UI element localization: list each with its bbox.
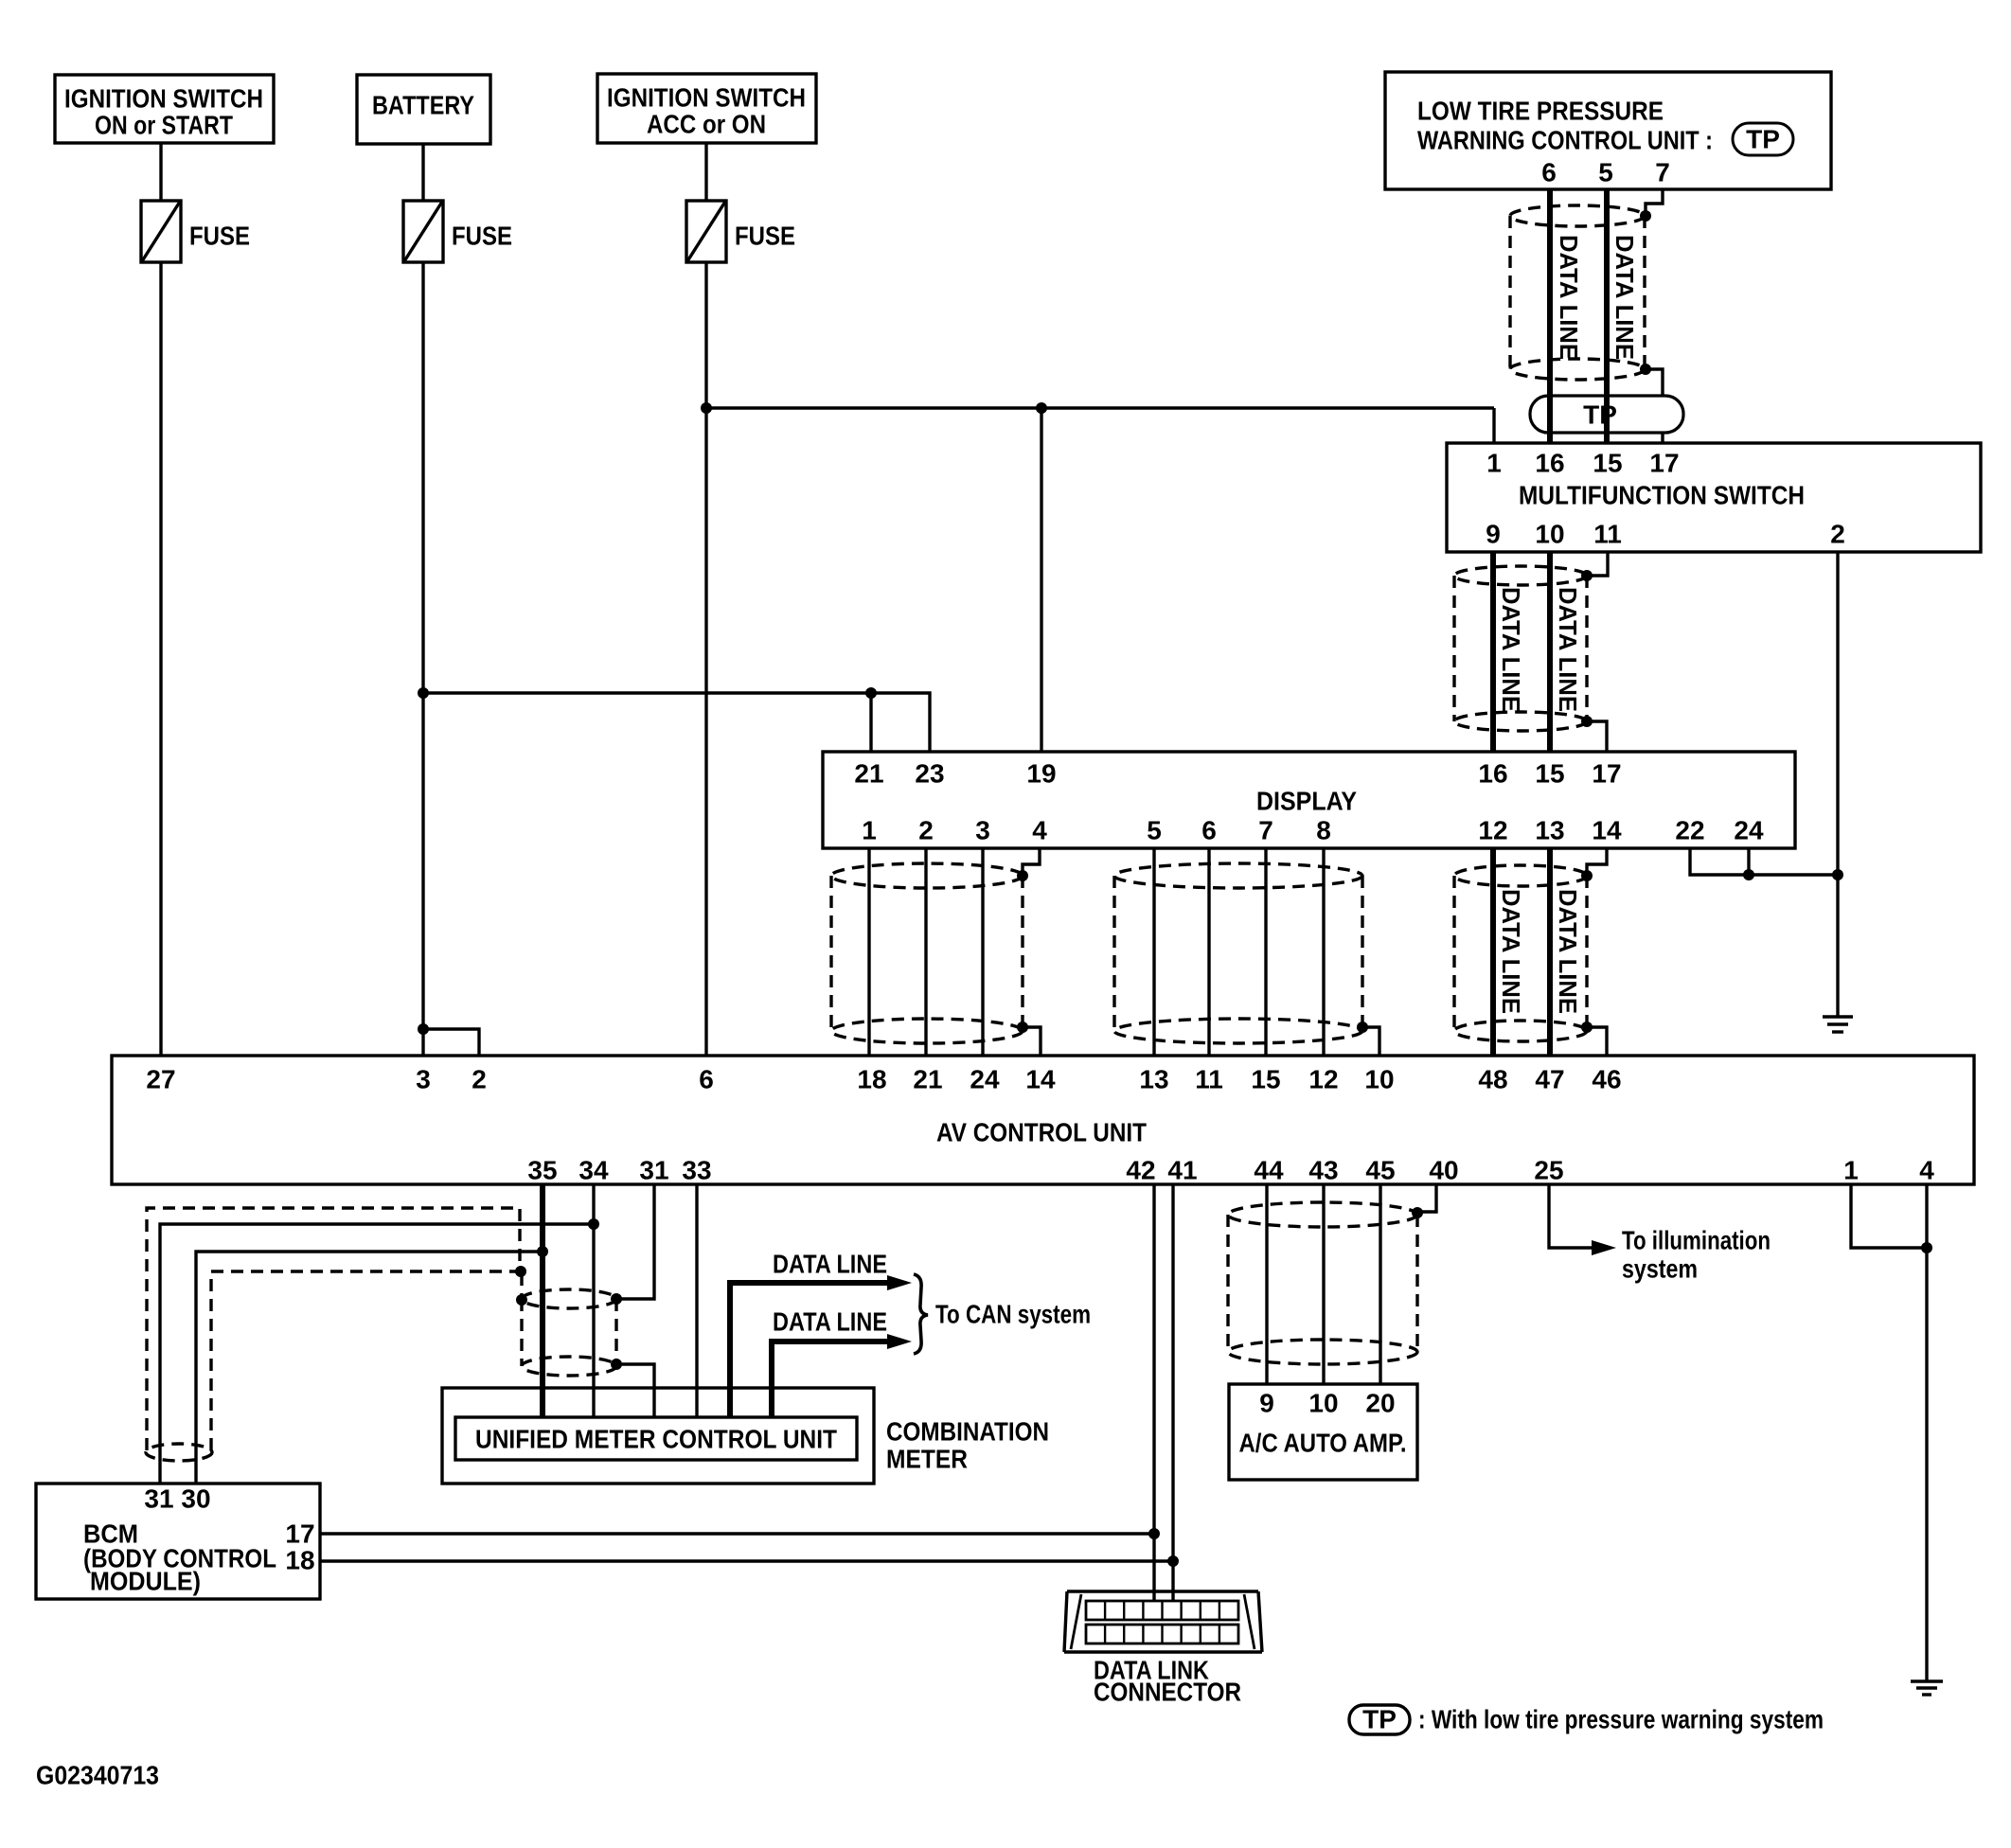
svg-text:16: 16	[1478, 759, 1507, 789]
brace to CAN system	[914, 1274, 928, 1354]
svg-text:33: 33	[682, 1156, 711, 1185]
wire: TP joint to MF pin 15 (thick)	[1604, 390, 1610, 443]
svg-text:45: 45	[1365, 1156, 1395, 1185]
svg-text:A/C AUTO AMP.: A/C AUTO AMP.	[1239, 1429, 1407, 1458]
svg-text:LOW TIRE PRESSURE: LOW TIRE PRESSURE	[1417, 97, 1664, 126]
connector box: AV CONTROL UNIT	[112, 1056, 1974, 1185]
svg-text:4: 4	[1032, 816, 1047, 845]
svg-text:DISPLAY: DISPLAY	[1256, 787, 1357, 816]
wire: DISPLAY 3 to AV 24	[981, 848, 984, 1056]
svg-text:21: 21	[854, 759, 883, 789]
wire: MF pin 2 to ground	[1836, 552, 1839, 1017]
svg-text:MODULE): MODULE)	[90, 1567, 201, 1596]
wire: drop to DISPLAY pin 19	[1040, 408, 1042, 752]
node: shield connection bottom	[1640, 364, 1651, 375]
node: shield at cylinder	[516, 1294, 527, 1306]
svg-text:TP: TP	[1362, 1705, 1397, 1734]
wire: BCM pin 17 to data link connector (wire 42)	[320, 1532, 1154, 1535]
svg-text:6: 6	[699, 1065, 714, 1094]
svg-text:7: 7	[1655, 158, 1670, 187]
shielded cable: DISPLAY pins 1-3 to AV 18/21/24	[831, 863, 1023, 1043]
svg-text:3: 3	[416, 1065, 431, 1094]
node: shield top	[1581, 870, 1593, 881]
legend: TP note	[1349, 1705, 1824, 1735]
wire: ignition ON/START to fuse F1	[159, 143, 162, 201]
wire: AV pin 35 to unified meter (thick data line)	[540, 1184, 545, 1417]
svg-text:22: 22	[1675, 816, 1704, 845]
svg-text:46: 46	[1592, 1065, 1621, 1094]
svg-text:15: 15	[1251, 1065, 1280, 1094]
wire: AV pin 43 to A/C amp pin 10	[1322, 1184, 1325, 1384]
svg-text:DATA LINE: DATA LINE	[1497, 587, 1525, 712]
svg-text:5: 5	[1147, 816, 1162, 845]
wire: ACC feed to MULTIFUNCTION SWITCH pin 1	[706, 406, 1494, 409]
wire: shield to DISPLAY pin 17	[1587, 721, 1607, 752]
wire: AV pin 40 shield jog	[1419, 1184, 1436, 1212]
wire: battery to fuse F2	[421, 144, 424, 201]
svg-text:METER: METER	[886, 1445, 968, 1474]
node: junction on wire 42	[1148, 1528, 1160, 1539]
svg-text:13: 13	[1535, 816, 1564, 845]
connector box: LOW TIRE PRESSURE WARNING CONTROL UNIT	[1385, 72, 1831, 189]
node: junction pins 1/4	[1921, 1242, 1932, 1253]
wire: AV pin 42 to data link connector	[1152, 1184, 1155, 1601]
wire: AV pin 41 to data link connector	[1171, 1184, 1174, 1601]
svg-text:system: system	[1622, 1254, 1698, 1284]
svg-text:DATA LINE: DATA LINE	[1554, 889, 1582, 1014]
svg-text:DATA LINE: DATA LINE	[1611, 235, 1639, 360]
shield (dashed) from BCM bundle: inner run	[211, 1271, 517, 1450]
label COMBINATION METER	[886, 1417, 1049, 1474]
wire: dashed shield to cable shield	[520, 1273, 523, 1299]
shielded cable between MF switch and DISPLAY	[1454, 566, 1587, 731]
node: shield junction	[515, 1266, 526, 1277]
wire: battery branch to DISPLAY pins 21/23	[423, 693, 930, 752]
wire: MF pin 9 to DISPLAY pin 16 (thick)	[1490, 552, 1496, 752]
svg-text:DATA LINE: DATA LINE	[1555, 235, 1583, 360]
svg-text:16: 16	[1535, 449, 1564, 478]
svg-text:44: 44	[1254, 1156, 1284, 1185]
svg-text:15: 15	[1535, 759, 1564, 789]
wire: fuse F1 down to AV CONTROL UNIT pin 27	[159, 262, 162, 1056]
fuse F3	[686, 201, 795, 262]
wire: data line pin 5 to MF pin 15 (thick)	[1604, 189, 1610, 390]
connector box: COMBINATION METER	[442, 1388, 874, 1484]
wire: data line pin 6 to MF pin 16 (thick)	[1547, 189, 1553, 390]
wire: AV pin 25 to illumination system (arrow)	[1549, 1184, 1616, 1255]
svg-text:IGNITION SWITCH: IGNITION SWITCH	[64, 84, 263, 114]
node: shield top	[1017, 870, 1028, 881]
svg-text:To CAN system: To CAN system	[935, 1300, 1091, 1329]
wire: AV pin 31 shield jog	[618, 1184, 654, 1299]
svg-text:24: 24	[1734, 816, 1764, 845]
svg-text:48: 48	[1478, 1065, 1507, 1094]
svg-text:FUSE: FUSE	[189, 222, 250, 251]
svg-text:2: 2	[472, 1065, 487, 1094]
connector joint TP	[1530, 396, 1683, 433]
wire: shield drain to MF pin 17	[1646, 369, 1663, 443]
wire: shield to unified meter	[616, 1364, 654, 1417]
svg-text:40: 40	[1429, 1156, 1458, 1185]
wire: DISPLAY 14 shield jog	[1587, 848, 1607, 874]
node: shield bottom	[1581, 716, 1593, 727]
wire: fuse F2 down to AV CONTROL UNIT pin 3	[421, 262, 424, 1056]
svg-text:WARNING CONTROL UNIT :: WARNING CONTROL UNIT :	[1417, 126, 1713, 155]
svg-text:21: 21	[913, 1065, 942, 1094]
wire: AV pin 1 to ground rail	[1851, 1184, 1925, 1248]
svg-text:2: 2	[918, 816, 934, 845]
node: junction on wire 34	[588, 1218, 599, 1230]
connector box: IGNITION SWITCH ACC or ON	[597, 74, 816, 143]
svg-text:10: 10	[1308, 1389, 1338, 1418]
node: shield bottom	[1357, 1022, 1368, 1033]
wire: AV pin 44 to A/C amp pin 9	[1265, 1184, 1268, 1384]
svg-text:3: 3	[975, 816, 990, 845]
node: shield top right	[611, 1293, 622, 1305]
connector box: A/C AUTO AMP.	[1229, 1384, 1417, 1480]
svg-text:11: 11	[1593, 520, 1622, 549]
node: shield top	[1581, 570, 1593, 581]
svg-text:24: 24	[970, 1065, 1000, 1094]
svg-text:COMBINATION: COMBINATION	[886, 1417, 1049, 1447]
svg-text:20: 20	[1365, 1389, 1395, 1418]
svg-text:25: 25	[1534, 1156, 1563, 1185]
svg-text:15: 15	[1593, 449, 1622, 478]
connector box: DISPLAY	[823, 752, 1795, 848]
label To illumination system	[1622, 1226, 1771, 1284]
svg-text:31: 31	[144, 1484, 173, 1514]
wire: DISPLAY 12 to AV 48 (thick)	[1490, 848, 1496, 1056]
wire: DISPLAY pin 22 to ground rail	[1690, 848, 1838, 875]
svg-text:18: 18	[857, 1065, 886, 1094]
svg-text:FUSE: FUSE	[735, 222, 795, 251]
svg-text:10: 10	[1535, 520, 1564, 549]
wire: drop to DISPLAY pin 21	[869, 693, 872, 752]
svg-text:9: 9	[1259, 1389, 1274, 1418]
node: junction with DISPLAY 22/24	[1832, 869, 1843, 880]
connector box: BATTERY	[357, 75, 490, 144]
node: shield bottom right	[611, 1359, 622, 1370]
node: junction above DISPLAY pin 21	[865, 687, 877, 699]
wire: BCM pin 30 to AV pin 35	[196, 1252, 540, 1484]
svg-text:41: 41	[1167, 1156, 1197, 1185]
node: shield top	[1412, 1207, 1423, 1218]
shielded cable (twisted pair) between low tire unit and TP joint	[1510, 205, 1645, 380]
svg-text:23: 23	[915, 759, 944, 789]
fuse F1	[141, 201, 250, 262]
wire: shield to AV pin 14	[1023, 1027, 1041, 1056]
wire: DISPLAY 5 to AV 13	[1152, 848, 1155, 1056]
svg-text:13: 13	[1139, 1065, 1168, 1094]
svg-text:17: 17	[1649, 449, 1679, 478]
svg-text:UNIFIED METER CONTROL UNIT: UNIFIED METER CONTROL UNIT	[475, 1425, 837, 1454]
fuse F2	[403, 201, 512, 262]
wire: DISPLAY 6 to AV 11	[1207, 848, 1210, 1056]
svg-text:42: 42	[1126, 1156, 1155, 1185]
svg-text:G02340713: G02340713	[36, 1761, 159, 1790]
wire: AV pin 34 to unified meter	[592, 1184, 595, 1417]
svg-text:TP: TP	[1746, 125, 1780, 154]
shielded cable: DISPLAY pins 12/13 to AV 48/47 (data lines)	[1454, 865, 1587, 1041]
wire: pin 7 shield drain top jog	[1646, 189, 1663, 214]
svg-text:CONNECTOR: CONNECTOR	[1094, 1678, 1241, 1707]
svg-text:BATTERY: BATTERY	[372, 91, 474, 120]
svg-text:8: 8	[1316, 816, 1331, 845]
svg-text:18: 18	[285, 1546, 314, 1575]
wire: MF pin 11 shield jog	[1589, 552, 1608, 576]
svg-text:9: 9	[1486, 520, 1501, 549]
wire: DISPLAY pin 24 drop	[1747, 848, 1750, 875]
svg-text:10: 10	[1364, 1065, 1394, 1094]
node: battery wire junction to display branch	[418, 687, 429, 699]
svg-text:ON or START: ON or START	[95, 111, 233, 140]
wire: DISPLAY 13 to AV 47 (thick)	[1547, 848, 1553, 1056]
wire: DISPLAY 2 to AV 21	[924, 848, 927, 1056]
node: pin 24 junction	[1743, 869, 1754, 880]
wire: BCM pin 18 to data link connector (wire 41)	[320, 1559, 1173, 1562]
svg-text:17: 17	[285, 1519, 314, 1549]
svg-text:1: 1	[1486, 449, 1502, 478]
shield (dashed) from BCM bundle: outer run	[147, 1208, 520, 1450]
wire: ignition ACC to fuse F3	[704, 143, 707, 201]
svg-text:DATA LINE: DATA LINE	[773, 1250, 887, 1279]
connector box: MULTIFUNCTION SWITCH	[1447, 443, 1981, 552]
node: battery wire junction to AV pin 2 branch	[418, 1023, 429, 1035]
svg-text:6: 6	[1541, 158, 1557, 187]
ground symbol (AV pins 1/4)	[1911, 1681, 1943, 1695]
svg-text:2: 2	[1830, 520, 1845, 549]
node: junction above DISPLAY pin 19	[1036, 402, 1047, 414]
svg-text:17: 17	[1592, 759, 1621, 789]
svg-text:35: 35	[527, 1156, 557, 1185]
shielded cable above A/C auto amp	[1228, 1202, 1417, 1364]
ground symbol (MF pin 2)	[1823, 1017, 1853, 1032]
wire: branch to AV CONTROL UNIT pin 2	[423, 1029, 479, 1056]
svg-text:14: 14	[1025, 1065, 1056, 1094]
svg-text:27: 27	[146, 1065, 175, 1094]
wire: shield to AV pin 10	[1362, 1027, 1379, 1056]
svg-text:12: 12	[1308, 1065, 1338, 1094]
wire: MF pin 10 to DISPLAY pin 15 (thick)	[1547, 552, 1553, 752]
wire: TP joint to MF pin 16 (thick)	[1547, 390, 1553, 443]
svg-text:7: 7	[1258, 816, 1273, 845]
svg-text:AV CONTROL UNIT: AV CONTROL UNIT	[936, 1118, 1147, 1147]
svg-text:DATA LINE: DATA LINE	[773, 1307, 887, 1337]
wire: shield to AV pin 46	[1587, 1027, 1607, 1056]
svg-text:12: 12	[1478, 816, 1507, 845]
data link connector housing	[1064, 1591, 1262, 1652]
svg-text:14: 14	[1592, 816, 1622, 845]
wire: DISPLAY 8 to AV 12	[1322, 848, 1325, 1056]
svg-text:6: 6	[1201, 816, 1217, 845]
svg-text:19: 19	[1026, 759, 1056, 789]
wire: CAN data line 2 (thick, with arrow)	[772, 1334, 912, 1417]
svg-text:TP: TP	[1583, 400, 1617, 430]
node: junction on wire 41	[1167, 1555, 1179, 1567]
svg-text:1: 1	[862, 816, 877, 845]
svg-text:30: 30	[181, 1484, 210, 1514]
wire: DISPLAY 7 to AV 15	[1264, 848, 1267, 1056]
svg-text:To illumination: To illumination	[1622, 1226, 1771, 1255]
node: shield bottom	[1017, 1022, 1028, 1033]
wire: CAN data line 1 (thick, with arrow)	[730, 1275, 912, 1417]
shielded cable around meter wires 35/34	[522, 1289, 616, 1376]
node: shield connection top	[1640, 210, 1651, 222]
svg-text:MULTIFUNCTION SWITCH: MULTIFUNCTION SWITCH	[1519, 481, 1805, 510]
node: ACC wire junction	[701, 402, 712, 414]
svg-text:ACC or ON: ACC or ON	[647, 110, 766, 139]
svg-text:47: 47	[1535, 1065, 1564, 1094]
svg-text:1: 1	[1843, 1156, 1859, 1185]
svg-text:43: 43	[1308, 1156, 1338, 1185]
connector box: UNIFIED METER CONTROL UNIT	[455, 1417, 857, 1460]
svg-text:34: 34	[578, 1156, 609, 1185]
wire: DISPLAY 4 shield jog	[1023, 848, 1040, 874]
svg-text:4: 4	[1919, 1156, 1934, 1185]
wire: AV pin 45 to A/C amp pin 20	[1379, 1184, 1381, 1384]
node: junction on wire 35	[537, 1246, 548, 1257]
connector box: IGNITION SWITCH ON or START	[55, 75, 274, 143]
node: shield bottom	[1581, 1022, 1593, 1033]
connector box: BCM (BODY CONTROL MODULE)	[36, 1484, 320, 1599]
svg-text:5: 5	[1598, 158, 1613, 187]
svg-text:IGNITION SWITCH: IGNITION SWITCH	[607, 83, 806, 113]
svg-text:: With low tire pressure warni: : With low tire pressure warning system	[1418, 1705, 1824, 1734]
shield end ellipse near BCM	[146, 1444, 212, 1461]
shielded cable: DISPLAY pins 5-8 to AV	[1114, 863, 1362, 1043]
wire: AV pin 33 to unified meter	[695, 1184, 698, 1417]
svg-text:DATA LINE: DATA LINE	[1497, 889, 1525, 1014]
svg-text:11: 11	[1195, 1065, 1223, 1094]
svg-text:31: 31	[639, 1156, 668, 1185]
svg-text:FUSE: FUSE	[452, 222, 512, 251]
wire: DISPLAY 1 to AV 18	[867, 848, 870, 1056]
wire: BCM pin 31 to AV pin 34	[160, 1224, 592, 1484]
wire: AV pin 4 to ground	[1925, 1184, 1928, 1681]
svg-text:DATA LINE: DATA LINE	[1554, 587, 1582, 712]
wire: fuse F3 down to AV CONTROL UNIT pin 6	[704, 262, 707, 1056]
